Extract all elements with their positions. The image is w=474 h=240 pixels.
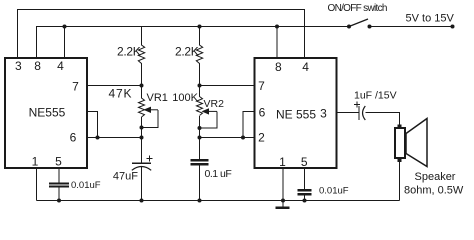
svg-text:1: 1 — [32, 155, 39, 169]
node: +V supply terminal — [451, 25, 455, 29]
switch SW1 lever (open) — [349, 19, 368, 27]
resistor 2.2K (right) — [196, 27, 202, 86]
svg-text:7: 7 — [72, 80, 79, 94]
wire: U2 pin 7 to R2/VR2 junction — [200, 85, 256, 87]
C2 polarity plus sign — [147, 156, 153, 162]
svg-text:8ohm, 0.5W: 8ohm, 0.5W — [404, 185, 464, 197]
node: C2 on ground rail — [140, 199, 144, 203]
wire: VR2 junction to U2 pin 2 — [200, 137, 256, 139]
node: U2 pin6 stub junction — [241, 136, 245, 140]
node: VR2 bottom / U2 pin2 junction — [198, 136, 202, 140]
wire: VR1 wiper loop to VR1 bottom — [142, 110, 159, 128]
svg-text:100K: 100K — [172, 92, 198, 104]
svg-text:3: 3 — [15, 59, 22, 73]
svg-text:2: 2 — [258, 131, 265, 145]
wire: U2 pin 8 to +V rail — [276, 27, 278, 58]
wire: switch to battery +V terminal — [370, 26, 453, 28]
wire: ground rail — [37, 200, 400, 202]
svg-text:47uF: 47uF — [113, 171, 138, 183]
node: C3 on ground rail — [198, 199, 202, 203]
svg-text:8: 8 — [34, 59, 41, 73]
potentiometer VR2 100K element — [197, 86, 203, 116]
wire: U1 pin 1 down to ground rail — [36, 169, 38, 201]
node: U2 pin8 on +V rail — [275, 25, 279, 29]
resistor 2.2K (left) — [138, 27, 144, 86]
svg-text:Speaker: Speaker — [415, 171, 456, 183]
svg-text:1uF /15V: 1uF /15V — [354, 90, 397, 102]
node: R1/VR1/U1 pin7 junction — [140, 84, 144, 88]
node: R2/VR2/U2 pin7 junction — [198, 84, 202, 88]
svg-text:VR1: VR1 — [147, 92, 168, 104]
node: VR1 bottom / U1 pin6 junction — [140, 136, 144, 140]
node: VR1 wiper loop junction — [140, 126, 144, 130]
svg-text:0.01uF: 0.01uF — [71, 180, 101, 191]
wire: VR2 bottom to C3 top — [199, 116, 201, 160]
wire: U2 pin 5 to C5 — [304, 169, 306, 190]
node: U2 pin1 / ground symbol — [281, 199, 285, 203]
potentiometer VR2 wiper arrow — [202, 108, 218, 114]
ground symbol bar — [276, 207, 290, 209]
capacitor C4 1uF/15V electrolytic — [359, 106, 365, 120]
node: U1 pin2 stub junction — [96, 136, 100, 140]
svg-text:1: 1 — [279, 155, 286, 169]
wire: speaker return to ground rail — [399, 162, 401, 201]
svg-text:NE555: NE555 — [29, 106, 66, 120]
speaker LS1 — [395, 119, 427, 167]
wire: U2 pin 6 stub to pin 2 line — [243, 112, 255, 138]
wire: U1 pin 6 to VR1 bottom — [87, 137, 142, 139]
svg-text:2.2K: 2.2K — [175, 45, 199, 59]
svg-text:5: 5 — [301, 155, 308, 169]
potentiometer VR1 wiper arrow — [143, 107, 158, 113]
IC U2 NE555 body — [255, 58, 337, 168]
node: switch right contact — [368, 25, 372, 29]
wire: C1 to ground rail — [58, 188, 60, 201]
node: VR2 wiper loop junction — [198, 126, 202, 130]
wire: U1 pin 4 to +V rail — [64, 27, 66, 58]
wire: U1 pin 7 to R1/VR1 junction — [87, 85, 142, 87]
C4 polarity plus sign — [354, 102, 360, 108]
svg-text:4: 4 — [302, 60, 309, 74]
wire: +V rail from U1 pin 8 to switch — [37, 27, 350, 58]
svg-text:0.01uF: 0.01uF — [319, 186, 349, 197]
wire: VR2 wiper loop to VR2 bottom — [200, 111, 218, 128]
svg-text:2.2K: 2.2K — [117, 45, 141, 59]
potentiometer VR1 47K element — [139, 86, 145, 118]
svg-text:5V to 15V: 5V to 15V — [406, 13, 455, 25]
wire: C2 bottom to ground rail — [141, 167, 143, 201]
wire: U1 pin 5 to C1 — [58, 169, 60, 183]
wire: C4 to speaker — [366, 113, 400, 126]
node: U1 pin4 on +V rail — [63, 25, 67, 29]
capacitor C3 0.1uF plates — [191, 160, 209, 164]
svg-text:VR2: VR2 — [204, 98, 225, 110]
IC U1 NE555 body — [5, 58, 87, 168]
node: C1 on ground rail — [57, 199, 61, 203]
ground symbol stub — [282, 201, 284, 208]
capacitor C2 47uF electrolytic — [132, 163, 151, 170]
wire: output of U1 pin 3 rail to U2 pin 4 — [18, 10, 305, 58]
wire: C3 bottom to ground rail — [199, 165, 201, 201]
wire: U2 pin 3 to C4 — [336, 112, 359, 114]
svg-text:4: 4 — [57, 59, 64, 73]
pin number labels U1 — [15, 59, 79, 169]
wire: U1 pin 2 stub to pin 6 line — [87, 112, 98, 138]
node: R2 top on +V rail — [198, 25, 202, 29]
wire: U2 pin 1 to ground rail — [282, 169, 284, 201]
svg-text:6: 6 — [259, 106, 266, 120]
wire: VR1 bottom to C2 top — [141, 117, 143, 163]
capacitor C5 0.01uF plates (right) — [298, 190, 312, 194]
svg-text:ON/OFF switch: ON/OFF switch — [328, 3, 387, 14]
svg-text:5: 5 — [55, 155, 62, 169]
svg-text:0.1 uF: 0.1 uF — [205, 168, 232, 180]
svg-text:3: 3 — [320, 107, 327, 121]
svg-text:47K: 47K — [109, 87, 133, 101]
capacitor C1 0.01uF plates (left) — [49, 184, 69, 187]
node: C5 on ground rail — [303, 199, 307, 203]
pin number labels U2 — [258, 60, 327, 169]
svg-text:7: 7 — [258, 79, 265, 93]
node: switch left contact — [347, 25, 351, 29]
svg-text:NE 555: NE 555 — [276, 108, 316, 122]
wire: C5 to ground rail — [304, 195, 306, 201]
svg-text:6: 6 — [70, 131, 77, 145]
svg-text:8: 8 — [275, 60, 282, 74]
